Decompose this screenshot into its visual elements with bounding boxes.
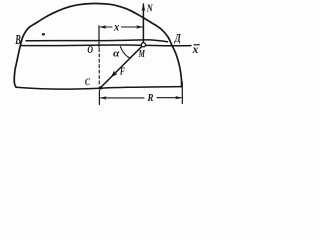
x-axis end dash — [194, 44, 199, 46]
dimension R right tick — [181, 82, 183, 104]
svg-text:α: α — [113, 48, 120, 60]
svg-text:B: B — [15, 32, 21, 47]
svg-text:F: F — [119, 67, 125, 78]
svg-text:x: x — [192, 42, 199, 56]
dimension x left tick above O — [98, 26, 100, 47]
dashed line O to C — [98, 49, 100, 87]
base line — [16, 87, 182, 89]
svg-text:N: N — [146, 3, 154, 15]
arrowhead N up — [142, 4, 146, 12]
wire: N force line from M up — [142, 4, 144, 43]
dimension R line right part — [157, 97, 181, 99]
svg-text:R: R — [147, 92, 154, 104]
arrowhead x left — [99, 25, 106, 28]
force F line M to C — [101, 46, 142, 87]
point M circle — [141, 43, 145, 47]
arrowhead R right — [175, 96, 182, 99]
svg-text:C: C — [85, 78, 91, 88]
svg-text:O: O — [87, 45, 93, 56]
arrowhead R left — [100, 96, 107, 99]
x-axis line — [21, 44, 192, 47]
angle alpha arc — [120, 47, 129, 59]
point C dot — [99, 86, 102, 89]
svg-text:M: M — [138, 49, 146, 60]
dimension x line right part — [122, 26, 143, 28]
dome arc — [14, 3, 181, 87]
arrowhead x right — [136, 25, 143, 28]
chord BD — [26, 40, 168, 42]
dimension R line left part — [101, 97, 144, 99]
dimension R left tick below C — [98, 91, 100, 105]
stray speck — [42, 33, 45, 35]
svg-text:Д: Д — [174, 32, 182, 44]
arrowhead F toward C — [111, 70, 118, 77]
dimension x line left part — [100, 26, 112, 28]
svg-text:x: x — [113, 19, 119, 33]
